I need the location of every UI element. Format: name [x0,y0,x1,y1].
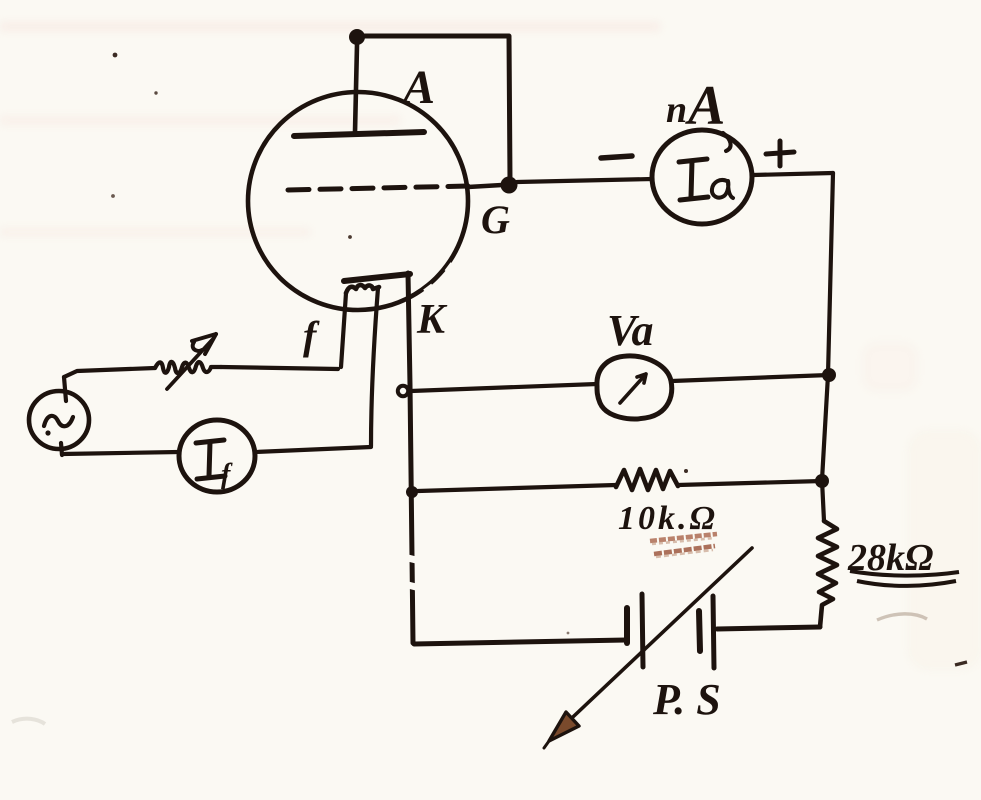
cathode bar K [344,274,410,281]
anode lead wire [355,45,357,132]
wire resistor 10k to right rail [678,481,822,485]
wire node to voltmeter Va [411,384,597,391]
ammeter If label I [196,440,225,479]
smudge marks [877,614,927,620]
ammeter If body [179,420,255,492]
wire right rail vertical [822,173,833,521]
wire ac source to ammeter If [62,452,179,454]
tube envelope arc gaps [272,264,453,307]
wire voltmeter Va to right rail [672,375,829,381]
svg-text:Va: Va [607,306,653,355]
svg-text:G: G [481,197,510,242]
grid G dashed electrode [288,186,468,190]
resistor R2 28k vertical zigzag [818,521,837,627]
svg-text:10k.Ω: 10k.Ω [618,500,718,537]
wire node to resistor 10k [418,485,616,491]
wire rheostat to filament f [221,367,338,369]
filament right lead wire [371,288,378,446]
wire G to ammeter Ia [517,179,652,182]
svg-text:K: K [416,297,448,343]
node right rail / Va [822,368,836,382]
svg-text:P. S: P. S [652,675,721,724]
ac source body [29,391,89,449]
voltmeter Va needle [620,374,646,403]
rheostat zigzag [155,362,221,373]
svg-text:A: A [685,75,725,137]
wire battery to bottom left corner [414,640,626,644]
variable supply arrow [557,548,752,732]
plus sign [766,141,794,166]
ammeter Ia label I [679,159,733,200]
underline 28k [850,571,959,586]
cathode lead wire K (vertical) [408,273,413,643]
vacuum tube envelope [248,92,468,310]
wire bottom right to battery [717,627,820,629]
node anode-top junction [349,29,365,45]
resistor R1 10k zigzag [616,469,678,490]
voltmeter Va body [597,356,672,419]
node (cathode / Va branch) [398,386,408,396]
anode plate A [294,132,424,136]
filament left lead wire [341,293,346,367]
wire Ia to right rail [753,173,833,175]
node (cathode / 10k branch) [406,486,418,498]
ac source top lead wire [64,377,66,401]
ac source tilde [44,416,73,426]
cathode lead pen gaps [408,558,416,587]
red check marks under 10k label [650,534,717,541]
ac source bottom lead wire [61,443,62,455]
node G [501,177,518,194]
wire ac source to rheostat [64,368,155,377]
wire ammeter If to filament lead [255,447,371,452]
svg-text:A: A [400,61,435,114]
minus sign [601,156,632,158]
ammeter Ia body [652,130,752,224]
filament heater [346,285,379,293]
wire top: anode node to corner and down to node G [357,36,510,180]
rheostat arrow [167,340,212,389]
svg-text:n: n [666,89,687,131]
node right rail / 10k [815,474,829,488]
battery PS plates [627,594,714,668]
